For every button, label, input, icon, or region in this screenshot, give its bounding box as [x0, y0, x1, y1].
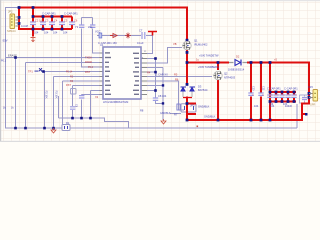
svg-text:C-CAP-0R1: C-CAP-0R1	[42, 12, 56, 16]
svg-text:E5V: E5V	[3, 38, 8, 42]
svg-text:C8 104: C8 104	[158, 94, 167, 98]
svg-text:VB: VB	[173, 42, 177, 46]
svg-text:Q2: Q2	[224, 71, 228, 75]
svg-text:TP1: TP1	[28, 69, 33, 73]
svg-text:VCC: VCC	[95, 30, 101, 34]
svg-text:R4: R4	[147, 70, 151, 74]
svg-text:104: 104	[254, 104, 259, 108]
svg-text:104/D: 104/D	[285, 104, 292, 108]
svg-text:ERASE: ERASE	[8, 53, 17, 57]
svg-text:C11: C11	[262, 86, 265, 91]
svg-text:JP3: JP3	[190, 104, 195, 108]
svg-text:R8: R8	[140, 108, 144, 112]
svg-text:C2 104: C2 104	[35, 18, 44, 22]
svg-text:R6: R6	[175, 77, 179, 81]
svg-text:C3: C3	[45, 18, 49, 22]
svg-text:R1: R1	[66, 121, 70, 125]
svg-text:104: 104	[63, 30, 68, 34]
svg-text:IRLML6402: IRLML6402	[194, 42, 208, 46]
svg-text:D2: D2	[236, 54, 240, 58]
svg-text:RXD0: RXD0	[85, 60, 92, 64]
svg-text:P0.14: P0.14	[66, 71, 73, 74]
svg-text:R3 10K: R3 10K	[55, 91, 58, 99]
svg-text:Q1: Q1	[194, 38, 198, 42]
svg-text:GND/BLK: GND/BLK	[204, 114, 216, 118]
svg-text:X2: X2	[95, 95, 99, 99]
svg-text:GND/BLK: GND/BLK	[198, 104, 210, 108]
svg-text:1 CAP-XX: 1 CAP-XX	[156, 73, 168, 77]
svg-text:JP2: JP2	[8, 10, 13, 14]
svg-text:C-CAP-0R1: C-CAP-0R1	[64, 12, 78, 16]
svg-text:GND/BLK: GND/BLK	[160, 112, 171, 115]
svg-text:TXD0: TXD0	[85, 56, 92, 60]
svg-text:BAT54C: BAT54C	[198, 88, 208, 92]
svg-text:104: 104	[53, 30, 58, 34]
svg-text:P0.2: P0.2	[88, 66, 94, 69]
svg-text:P0.1: P0.1	[1, 60, 7, 63]
svg-text:NTR4003: NTR4003	[224, 75, 236, 79]
svg-text:SPR: SPR	[310, 103, 315, 107]
svg-text:C6: C6	[74, 18, 78, 22]
svg-text:1N5819/SS14: 1N5819/SS14	[228, 67, 245, 71]
svg-text:C7: C7	[139, 28, 143, 32]
svg-text:LPC2132FBD64/THM: LPC2132FBD64/THM	[103, 100, 128, 104]
svg-text:+5V0 TANDETW: +5V0 TANDETW	[199, 53, 219, 57]
svg-text:C-CAP-0R1: C-CAP-0R1	[284, 86, 298, 90]
svg-text:R2 10K: R2 10K	[45, 91, 48, 99]
svg-text:C-CAP: C-CAP	[21, 25, 29, 28]
svg-text:RST: RST	[85, 70, 91, 74]
svg-text:C15: C15	[308, 85, 313, 89]
svg-text:RST: RST	[66, 84, 71, 87]
svg-text:U1: U1	[100, 43, 104, 47]
svg-text:0.1uF: 0.1uF	[137, 41, 144, 45]
svg-text:R7: R7	[174, 112, 178, 116]
svg-text:104: 104	[44, 30, 49, 34]
svg-text:C5: C5	[64, 18, 68, 22]
svg-text:104: 104	[34, 30, 39, 34]
svg-text:R5: R5	[174, 73, 178, 77]
svg-text:22p: 22p	[88, 25, 93, 29]
svg-text:+5V0 TANDBERG: +5V0 TANDBERG	[198, 65, 219, 69]
svg-text:D3: D3	[198, 84, 202, 88]
svg-text:Y1: Y1	[75, 25, 79, 29]
svg-text:C-CAP-0R1: C-CAP-0R1	[267, 86, 281, 90]
svg-text:C4: C4	[54, 18, 58, 22]
svg-text:C10: C10	[252, 86, 255, 91]
svg-text:SPRAC: SPRAC	[7, 29, 16, 33]
svg-text:104: 104	[270, 104, 275, 108]
